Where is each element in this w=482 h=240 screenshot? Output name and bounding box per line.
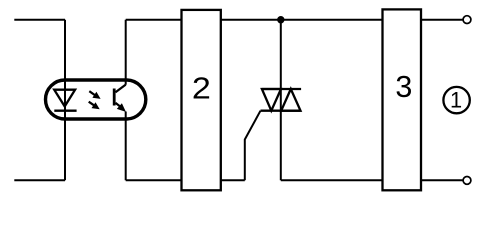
svg-text:2: 2 bbox=[192, 71, 211, 105]
svg-text:1: 1 bbox=[450, 88, 462, 113]
svg-text:3: 3 bbox=[395, 70, 412, 104]
